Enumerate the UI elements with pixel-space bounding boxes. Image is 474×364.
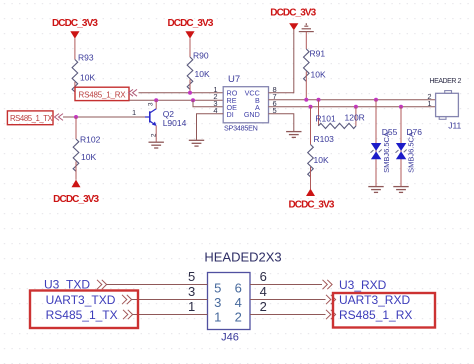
svg-text:1: 1	[214, 309, 221, 324]
resistor R93	[72, 53, 95, 92]
wire DI to ground	[197, 114, 224, 140]
svg-text:4: 4	[235, 295, 242, 310]
svg-text:3: 3	[148, 102, 155, 106]
svg-text:SP3485EN: SP3485EN	[224, 123, 258, 132]
diode D55 (TVS)	[371, 100, 398, 187]
connector J11 HEADER 2	[427, 78, 461, 130]
highlight box right	[333, 293, 435, 328]
wire jog RE to OE	[193, 100, 223, 107]
ground G2 (chip GND)	[286, 132, 301, 138]
svg-text:J11: J11	[448, 121, 461, 131]
svg-text:R91: R91	[310, 49, 326, 59]
svg-text:GND: GND	[244, 110, 260, 119]
highlight box left	[30, 291, 138, 329]
svg-text:5: 5	[188, 269, 195, 284]
resistor R101 (120R termination)	[315, 100, 364, 129]
svg-text:10K: 10K	[311, 70, 326, 80]
wire A net (pin6 to header pin1)	[269, 106, 436, 108]
svg-text:R103: R103	[314, 134, 335, 144]
port label RS485_1_RX	[75, 87, 137, 100]
svg-text:R90: R90	[193, 51, 209, 61]
svg-text:2: 2	[260, 299, 267, 314]
svg-text:10K: 10K	[81, 152, 96, 162]
junction D76/A	[399, 105, 403, 109]
svg-text:120R: 120R	[345, 113, 365, 123]
svg-text:10K: 10K	[314, 155, 329, 165]
power DCDC_3V3 P1	[52, 18, 98, 60]
svg-text:RS485_1_TX: RS485_1_TX	[46, 308, 118, 322]
ground G1 (Q2 emitter)	[149, 142, 164, 148]
junction R103/A	[309, 105, 313, 109]
svg-text:UART3_RXD: UART3_RXD	[339, 293, 410, 307]
svg-text:10K: 10K	[195, 69, 210, 79]
net label U3_TXD	[44, 278, 107, 292]
wire RS485_1_RX	[250, 314, 326, 316]
svg-text:2: 2	[235, 309, 242, 324]
wire B net (pin7 to header pin2)	[269, 99, 436, 101]
svg-text:DCDC_3V3: DCDC_3V3	[167, 18, 213, 29]
junction R101 left	[317, 98, 321, 102]
svg-text:R93: R93	[78, 53, 94, 63]
transistor Q2	[132, 100, 187, 142]
svg-text:6: 6	[260, 269, 267, 284]
wire RX net (pin1 RO)	[139, 92, 224, 94]
connector J46 box	[208, 273, 251, 344]
resistor R90	[187, 51, 210, 93]
svg-text:HEADED2X3: HEADED2X3	[204, 250, 281, 265]
junction RE/OE tie	[191, 98, 195, 102]
net label RS485_1_TX	[46, 308, 133, 322]
svg-text:2: 2	[151, 133, 158, 137]
net label UART3_RXD	[326, 293, 410, 307]
power DCDC_3V3 P2	[167, 18, 213, 57]
junction R102 top	[74, 115, 78, 119]
wire UART3_RXD	[250, 299, 326, 301]
wire U3_RXD	[250, 284, 322, 286]
svg-text:HEADER 2: HEADER 2	[430, 78, 462, 85]
diode D76 (TVS)	[396, 107, 423, 187]
junction D55/B	[374, 98, 378, 102]
resistor R91	[303, 32, 325, 100]
svg-text:J46: J46	[221, 332, 239, 344]
svg-text:SMBJ6.5CA: SMBJ6.5CA	[407, 132, 416, 173]
wire UART3_TXD	[131, 299, 208, 301]
junction Q2 collector	[154, 98, 158, 102]
svg-text:1: 1	[188, 299, 195, 314]
net label RS485_1_RX	[326, 308, 412, 322]
wire RS485_1_TX	[132, 314, 208, 316]
wire RE net (pin2)	[129, 99, 223, 101]
wire VCC	[269, 30, 294, 93]
ground G3 (DI)	[189, 140, 204, 146]
net label UART3_TXD	[46, 293, 132, 307]
svg-text:3: 3	[214, 295, 221, 310]
svg-text:U7: U7	[228, 74, 240, 85]
svg-text:DCDC_3V3: DCDC_3V3	[270, 7, 316, 18]
wire TX net to Q2 base	[63, 116, 145, 118]
ground G5 (D76)	[393, 187, 408, 193]
svg-text:4: 4	[260, 284, 267, 299]
svg-text:DI: DI	[227, 110, 234, 119]
junction R91/B	[304, 98, 308, 102]
resistor R102	[73, 117, 100, 180]
svg-text:5: 5	[214, 280, 221, 295]
wire GND pin5	[269, 114, 294, 132]
power DCDC_3V3 P5 (bottom-middle, arrow up)	[288, 189, 334, 211]
svg-text:1: 1	[132, 108, 136, 117]
resistor R103	[308, 107, 334, 189]
svg-text:R101: R101	[315, 114, 336, 124]
svg-text:1: 1	[427, 99, 431, 108]
svg-text:SMBJ6.5CA: SMBJ6.5CA	[382, 132, 391, 173]
svg-text:DCDC_3V3: DCDC_3V3	[52, 18, 98, 29]
svg-text:DCDC_3V3: DCDC_3V3	[53, 194, 99, 205]
svg-text:6: 6	[235, 280, 242, 295]
svg-text:UART3_TXD: UART3_TXD	[46, 293, 116, 307]
svg-text:L9014: L9014	[163, 118, 187, 128]
IC U7 SP3485EN	[213, 74, 276, 132]
junction R101 right	[354, 105, 358, 109]
svg-text:DCDC_3V3: DCDC_3V3	[288, 200, 334, 211]
junction R90/RX	[188, 91, 192, 95]
svg-text:10K: 10K	[80, 73, 95, 83]
svg-text:RS485_1_RX: RS485_1_RX	[79, 91, 127, 100]
ground G4 (D55)	[368, 187, 383, 193]
ground G6 (inverted, R91 top)	[299, 23, 314, 31]
power DCDC_3V3 P4 (bottom-left, arrow up)	[53, 180, 99, 205]
svg-text:RS485_1_TX: RS485_1_TX	[10, 114, 54, 123]
svg-text:R102: R102	[80, 135, 101, 145]
wire U3_TXD	[106, 284, 208, 286]
svg-text:U3_RXD: U3_RXD	[339, 278, 387, 292]
svg-text:3: 3	[188, 284, 195, 299]
power DCDC_3V3 P3 (top-center)	[270, 7, 316, 30]
port label RS485_1_TX	[7, 111, 63, 125]
net label U3_RXD	[323, 278, 387, 292]
svg-text:RS485_1_RX: RS485_1_RX	[339, 308, 412, 322]
